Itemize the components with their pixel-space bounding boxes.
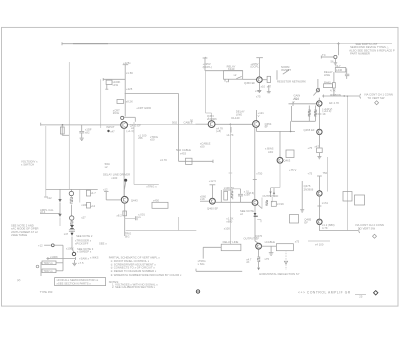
wire trigger bus — [126, 217, 197, 231]
label 50ohm cable — [176, 148, 191, 155]
wire Q4 collector to Q485 region — [308, 241, 330, 247]
wire feedback right — [347, 96, 348, 231]
svg-text:+75: +75 — [308, 172, 313, 176]
transistor Q485 — [317, 219, 322, 224]
resistor R477 — [343, 192, 352, 202]
svg-text:(-8.6): (-8.6) — [248, 191, 255, 195]
wire left column A — [45, 126, 47, 196]
svg-text:4.7K: 4.7K — [330, 89, 336, 93]
svg-text:+12: +12 — [38, 243, 43, 247]
svg-text:x4.7: x4.7 — [91, 191, 97, 195]
label cable mid left — [200, 142, 211, 149]
ground base network — [300, 210, 304, 212]
svg-text:x100: x100 — [111, 176, 117, 180]
label Q454 — [265, 122, 272, 129]
node junction ring — [72, 249, 76, 256]
svg-text:+CRT GRID: +CRT GRID — [136, 106, 151, 110]
lamp B420 — [69, 189, 73, 215]
diode CR420 — [58, 189, 61, 213]
svg-text:R440: R440 — [324, 80, 331, 84]
wire Q455-Q465 interstage — [317, 106, 321, 129]
svg-text:xCABLE: xCABLE — [265, 240, 276, 244]
transistor Q475 — [317, 191, 322, 196]
svg-text:x4: x4 — [226, 80, 229, 84]
svg-text:L440: L440 — [336, 68, 343, 72]
svg-text:x8.2K: x8.2K — [126, 100, 133, 104]
diode pair CR472 — [269, 188, 280, 203]
svg-text:(+1.3): (+1.3) — [126, 129, 133, 133]
svg-text:CABLE: CABLE — [184, 120, 193, 124]
ground R472 — [269, 246, 274, 255]
svg-text:DL440: DL440 — [231, 116, 240, 120]
label Q485 — [304, 218, 311, 225]
label left of Q460 — [200, 194, 206, 201]
ground at Q445 — [334, 63, 338, 65]
zener VR421 — [70, 225, 73, 228]
svg-text:SEE NOTE 2: SEE NOTE 2 — [76, 234, 93, 238]
transistor Q433 input — [121, 122, 128, 129]
svg-text:x453: x453 — [180, 152, 186, 156]
svg-text:Q450 EF: Q450 EF — [244, 81, 255, 85]
resistor box R426 — [41, 261, 63, 276]
svg-text:EF: EF — [265, 125, 269, 129]
resistor R478 — [355, 195, 365, 205]
resistor R470 emitter — [246, 250, 269, 271]
svg-text:x150: x150 — [255, 89, 261, 93]
svg-text:INPUT: INPUT — [106, 125, 115, 129]
svg-text:<+> CONTROL AMPLIF GR: <+> CONTROL AMPLIF GR — [298, 291, 351, 295]
wire input — [41, 123, 121, 126]
label mid column — [255, 89, 261, 99]
wire relay to Q450 — [243, 78, 257, 80]
capacitor top of Q450 — [250, 58, 263, 77]
svg-text:Q470: Q470 — [255, 234, 262, 238]
note box important — [55, 278, 106, 286]
transistor Q465 — [317, 129, 322, 134]
transistor Q445 thermal — [321, 53, 337, 63]
resistor R425 — [81, 203, 95, 209]
wire branch y93 — [125, 87, 179, 94]
svg-text:K440: K440 — [228, 67, 235, 71]
diode CR464 — [224, 205, 261, 241]
svg-text:TYPE 453: TYPE 453 — [40, 290, 53, 294]
resistor R463 — [286, 150, 294, 158]
svg-text:LINE: LINE — [324, 73, 330, 77]
transistor Q454 — [253, 121, 260, 128]
label Q453 — [207, 114, 223, 133]
potentiometer R441 gain — [313, 79, 319, 96]
svg-text:x56: x56 — [138, 136, 143, 140]
svg-text:x4 100: x4 100 — [315, 243, 324, 247]
svg-text:x12: x12 — [103, 187, 108, 191]
svg-text:x SIG: x SIG — [198, 262, 205, 266]
label Q463 — [265, 147, 291, 163]
svg-text:x100K: x100K — [50, 255, 58, 259]
transistor Q464 — [252, 200, 258, 206]
connector J420 — [38, 243, 63, 270]
svg-text:xSEE TABLE: xSEE TABLE — [11, 233, 27, 237]
terminal column A bottom — [44, 196, 52, 200]
svg-text:2. SEE CALIBRATION SECTION x: 2. SEE CALIBRATION SECTION x — [112, 285, 156, 289]
svg-text:DLY: DLY — [336, 64, 341, 68]
resistor R459 — [227, 127, 234, 137]
svg-text:x100: x100 — [81, 203, 87, 207]
svg-text:4.7K: 4.7K — [322, 226, 328, 230]
svg-text:OUTPUT DF: OUTPUT DF — [263, 194, 279, 198]
pot R407 — [121, 116, 136, 122]
capacitor C421 — [69, 230, 75, 233]
delay line box T440 — [335, 64, 346, 72]
label output CH1 — [330, 92, 393, 100]
resistor R445 — [160, 158, 213, 164]
wire Q454 emitter bus — [256, 121, 295, 132]
node diamond CH1 — [375, 101, 379, 105]
svg-text:2N3x: 2N3x — [113, 111, 120, 115]
wire rail y189 — [46, 188, 98, 190]
svg-text:50Ω: 50Ω — [172, 121, 177, 125]
svg-text:x50: x50 — [200, 145, 205, 149]
label below right — [138, 133, 147, 140]
svg-text:x0.4: x0.4 — [40, 210, 46, 214]
svg-text:xSEE SECTION 6 PARTS x: xSEE SECTION 6 PARTS x — [57, 281, 92, 285]
page marker dot — [196, 290, 199, 293]
resistor R403 — [105, 80, 120, 89]
wire left column B — [68, 125, 70, 189]
wire output CH2 — [319, 225, 359, 233]
label cluster right — [66, 242, 107, 254]
transistor Q455 — [317, 98, 322, 107]
svg-text:x WKS: x WKS — [90, 256, 99, 260]
svg-text:x8.2: x8.2 — [117, 213, 123, 217]
box R471 — [276, 240, 299, 251]
wire Q463 emitter — [279, 163, 281, 187]
resistor R402 loop — [60, 125, 69, 135]
transistor Q460 — [210, 198, 216, 204]
wire center column — [229, 124, 233, 244]
wire Q470 output right — [262, 240, 277, 246]
transistor Q450 — [257, 77, 263, 83]
svg-text:T/DIV xx: T/DIV xx — [44, 262, 54, 265]
svg-text:xK: xK — [246, 260, 249, 264]
terminal Q443 base — [103, 187, 121, 200]
resistor R442 — [330, 72, 336, 96]
svg-text:④ REFER TO DIAGRAM NUMBER x: ④ REFER TO DIAGRAM NUMBER x — [111, 269, 157, 273]
svg-text:x47: x47 — [110, 130, 115, 134]
title diamond — [374, 291, 378, 295]
transistor Q443 — [121, 196, 128, 203]
svg-text:Q460 EF: Q460 EF — [207, 207, 218, 211]
box R448 — [152, 198, 168, 208]
svg-text:x750: x750 — [256, 172, 262, 176]
terminal +225V left — [203, 56, 212, 71]
label Q475 — [304, 184, 314, 192]
svg-text:x SWEEP x: x SWEEP x — [77, 249, 92, 253]
label CRT mid — [150, 135, 158, 142]
title text — [298, 291, 366, 299]
wire drop x178 — [178, 94, 180, 162]
wire relay feed — [205, 70, 243, 72]
label Q455 — [322, 101, 339, 111]
svg-text:V: V — [293, 100, 295, 104]
wire jog to Q470 — [255, 241, 259, 243]
capacitor C441 — [345, 68, 349, 79]
svg-text:+12 V: +12 V — [209, 179, 217, 183]
svg-text:x2: x2 — [240, 212, 243, 216]
svg-text:x47: x47 — [315, 144, 320, 148]
svg-text:PART NUMBER: PART NUMBER — [350, 51, 370, 55]
svg-text:TO VERT SW: TO VERT SW — [367, 96, 384, 100]
relay K440 — [224, 65, 243, 84]
note text block left — [11, 223, 39, 237]
variable arrow R453 — [277, 65, 291, 80]
svg-text:RESISTOR NETWORK: RESISTOR NETWORK — [277, 79, 306, 83]
wire Q463 collector — [279, 131, 281, 157]
wire base network Q475 — [301, 181, 303, 209]
wire base feed Q455 — [289, 102, 317, 106]
svg-text:EF 4.7K: EF 4.7K — [329, 101, 339, 105]
svg-text:⑤ WIREPATH NUMBER WIRE INDICA: ⑤ WIREPATH NUMBER WIRE INDICATED BY COLO… — [111, 273, 183, 277]
wire base Q460 — [200, 200, 209, 202]
svg-text:RIBBON: RIBBON — [330, 93, 341, 97]
wire Q475 collector feed — [317, 171, 328, 191]
node bus tap at x=338 — [337, 42, 340, 55]
svg-text:Q443: Q443 — [131, 198, 138, 202]
ground R456 — [267, 84, 272, 93]
resistor box R427 — [36, 265, 63, 273]
resistor R473 — [290, 215, 299, 224]
svg-text:T/DIV xx: T/DIV xx — [44, 270, 54, 273]
svg-text:+7.5: +7.5 — [78, 261, 84, 265]
wire emitter bus Q460-Q464 — [215, 201, 251, 203]
svg-text:x1.5K: x1.5K — [126, 71, 133, 75]
svg-text:+75 V: +75 V — [289, 168, 297, 172]
resistor network Q464 emitter — [258, 198, 285, 209]
svg-text:x17A: x17A — [322, 201, 328, 205]
wire branch y79 — [103, 78, 125, 81]
svg-text:(+8): (+8) — [216, 129, 221, 133]
svg-text:+75: +75 — [308, 146, 313, 150]
lamp B421 — [70, 216, 74, 224]
svg-text:x SWITCH: x SWITCH — [21, 162, 34, 166]
wire feedback mid — [326, 157, 328, 192]
svg-text:x2: x2 — [234, 73, 237, 77]
svg-text:+225: +225 — [126, 87, 133, 91]
diode CR485 dashed — [284, 250, 287, 270]
svg-text:56: 56 — [331, 59, 335, 63]
svg-text:Q475: Q475 — [304, 184, 311, 188]
box R440 — [324, 80, 333, 87]
svg-text:x2: x2 — [105, 165, 108, 169]
resistor network emitters — [291, 106, 316, 122]
resistor R424 — [80, 189, 96, 202]
notes block bottom center — [109, 256, 182, 289]
svg-text:SEE x: SEE x — [99, 242, 107, 246]
svg-text:x1K: x1K — [200, 197, 205, 201]
ground Q450 emitter — [257, 83, 265, 93]
svg-text:1K: 1K — [322, 112, 326, 116]
diode CR421 — [58, 214, 61, 226]
svg-text:x1W: x1W — [113, 83, 119, 87]
delay line box DL470 — [221, 240, 241, 251]
svg-text:x3.9K: x3.9K — [277, 202, 284, 206]
wire Q443 top cluster — [103, 173, 130, 197]
label Q433 right — [126, 123, 141, 133]
svg-text:x75: x75 — [256, 95, 261, 99]
wire Q454 collector feed — [257, 110, 265, 121]
svg-text:SIG: SIG — [125, 234, 130, 238]
svg-text:+225v: +225v — [123, 61, 131, 65]
wire Q460 collector feed — [210, 185, 216, 198]
svg-text:INVERT: INVERT — [281, 68, 291, 72]
svg-text:2N3906: 2N3906 — [304, 188, 314, 192]
label gain adj — [294, 94, 301, 101]
node diamond CH2 — [373, 234, 377, 238]
svg-text:VIA CONT CH 1 CONN: VIA CONT CH 1 CONN — [364, 92, 393, 96]
wire left drop — [100, 79, 102, 128]
svg-text:x680: x680 — [226, 219, 232, 223]
svg-text:x10: x10 — [261, 84, 266, 88]
svg-text:(DCPL): (DCPL) — [203, 65, 212, 69]
junction dot input — [107, 130, 115, 134]
svg-text:25: 25 — [359, 294, 363, 298]
wire left feed vertical — [68, 62, 70, 125]
svg-text:TO VERT SW: TO VERT SW — [358, 226, 375, 230]
ground y263 — [72, 260, 84, 266]
svg-text:+12: +12 — [91, 204, 96, 208]
label mid notes — [64, 232, 93, 245]
svg-text:x47: x47 — [64, 232, 69, 236]
svg-text:x100: x100 — [224, 226, 230, 230]
svg-text:DELAY LINE: DELAY LINE — [223, 240, 239, 244]
label volts/div left — [21, 160, 38, 167]
label output CH2 — [322, 223, 384, 230]
svg-text:EF: EF — [304, 221, 308, 225]
svg-text:x10K 5K: x10K 5K — [224, 186, 235, 190]
svg-text:ADJ: ADJ — [268, 150, 274, 154]
svg-text:x12: x12 — [47, 196, 52, 200]
svg-text:x4.7K: x4.7K — [160, 158, 167, 162]
label above delay wire — [172, 120, 193, 124]
wire into delay box — [198, 247, 222, 266]
wire horizontal pickoff — [196, 269, 242, 272]
wire Q454-Q464 long vertical — [248, 128, 263, 199]
svg-text:2N3906: 2N3906 — [207, 117, 217, 121]
resistor R443 — [117, 203, 127, 236]
diode CR422 — [71, 233, 74, 249]
label delay line — [324, 70, 333, 77]
svg-text:x27: x27 — [81, 215, 86, 219]
label +121V right — [293, 97, 300, 104]
wire delay line main — [128, 124, 252, 126]
svg-text:VIA CONT CH 2 CONN: VIA CONT CH 2 CONN — [355, 223, 384, 227]
wire y258 — [46, 255, 98, 260]
resistor R465 — [315, 135, 323, 157]
wire relay drop — [206, 71, 212, 121]
svg-text:750: 750 — [323, 171, 328, 175]
capacitor C461 — [233, 189, 250, 203]
svg-text:x75: x75 — [295, 240, 300, 244]
wire Q433-Q443 — [123, 128, 125, 196]
svg-text:Q463: Q463 — [284, 159, 291, 163]
transistor Q463 — [277, 157, 283, 163]
svg-text:Q465 EF: Q465 EF — [304, 128, 315, 132]
wire output CH1 — [322, 94, 361, 99]
capacitor C402 + ground — [79, 125, 92, 140]
note text top right — [349, 42, 395, 55]
label interstage — [322, 109, 331, 116]
component C405 — [117, 100, 133, 104]
transistor Q470 — [256, 243, 262, 249]
label Q433 — [113, 108, 120, 115]
label 50 ohm left — [105, 162, 110, 169]
label Q470 — [244, 234, 263, 240]
svg-text:x47: x47 — [267, 84, 272, 88]
ground R465 — [317, 157, 321, 159]
capacitor C443 — [125, 212, 146, 220]
svg-text:x50: x50 — [150, 138, 155, 142]
wire +225V top bus — [62, 42, 392, 45]
resistor R451 — [262, 76, 270, 82]
wire branch x134 — [134, 122, 159, 189]
wire Q475-Q485 — [317, 196, 328, 219]
svg-text:xPICKOFF: xPICKOFF — [75, 241, 89, 245]
svg-text:① FRONT PANEL CONTROL x: ① FRONT PANEL CONTROL x — [111, 259, 150, 263]
transistor Q453 — [208, 121, 215, 128]
svg-text:(DCPL): (DCPL) — [250, 65, 259, 69]
label mid wire — [231, 110, 245, 120]
svg-text:HORIZONTAL DEFLECTION SY: HORIZONTAL DEFLECTION SY — [259, 272, 299, 276]
label trig sig — [125, 232, 132, 239]
svg-text:TC: TC — [322, 53, 326, 57]
wire +225 sub feed — [123, 61, 134, 116]
svg-text:x82: x82 — [85, 130, 90, 134]
svg-text:V: V — [258, 114, 260, 118]
resistor R461 — [221, 186, 234, 202]
svg-text:x450: x450 — [153, 198, 159, 202]
svg-text:x75: x75 — [265, 257, 270, 261]
wire amplitude cal input — [40, 208, 60, 214]
svg-text:xTRIG x: xTRIG x — [146, 185, 157, 189]
svg-text:+SAW x: +SAW x — [79, 256, 90, 260]
svg-text:(2): (2) — [17, 278, 20, 282]
